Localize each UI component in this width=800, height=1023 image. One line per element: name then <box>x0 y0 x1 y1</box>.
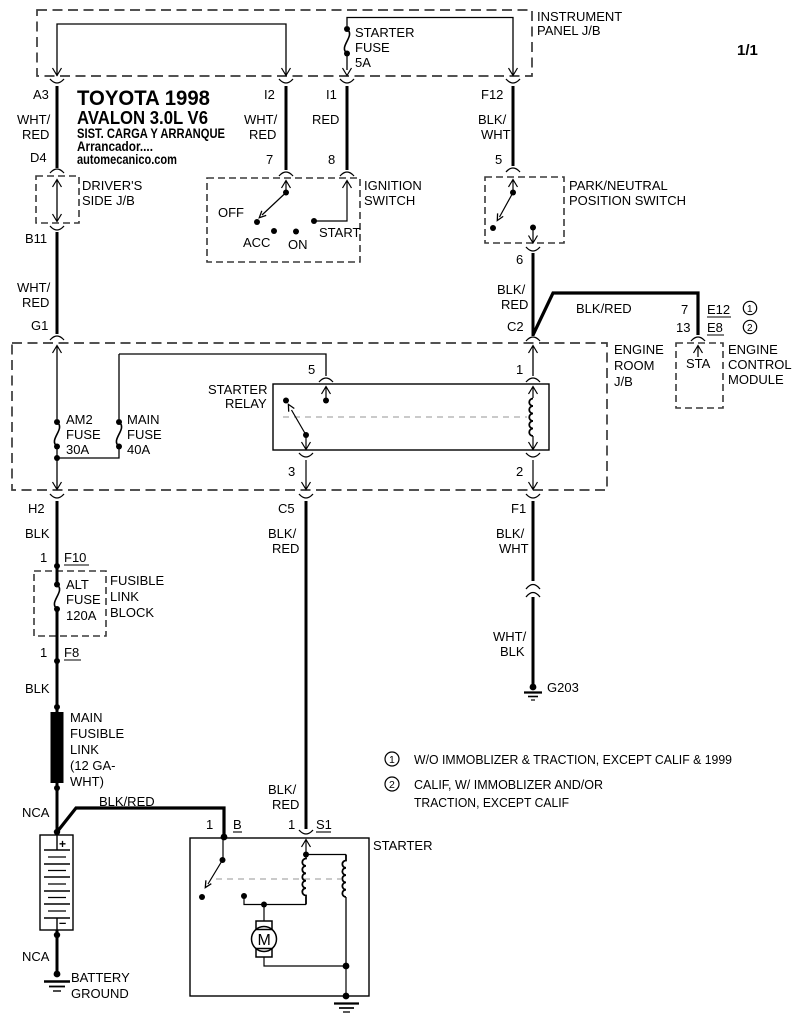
starter S1 entry arrow <box>302 840 311 858</box>
svg-text:2: 2 <box>516 464 523 479</box>
starter relay box <box>273 384 549 450</box>
svg-text:WHT: WHT <box>481 127 511 142</box>
wire junction to H2 <box>53 446 62 490</box>
svg-text:2: 2 <box>389 779 395 791</box>
wire fuse-F12 inside instrument panel <box>347 18 518 77</box>
connector relay pin3 socket <box>288 453 313 479</box>
label main fusible link <box>70 710 125 789</box>
label BLK/RED branch <box>576 301 632 316</box>
label fusible link block <box>110 573 165 620</box>
svg-text:M: M <box>258 932 271 949</box>
pin 7 label <box>266 152 273 167</box>
starter motor branch wire <box>263 905 265 922</box>
label RED col3 <box>312 112 339 127</box>
svg-text:ON: ON <box>288 237 308 252</box>
wire relay pin2 to F1 <box>529 460 538 490</box>
svg-text:H2: H2 <box>28 501 45 516</box>
svg-text:WHT/: WHT/ <box>244 112 278 127</box>
label starter fuse 5A <box>355 25 414 70</box>
svg-text:2: 2 <box>747 323 753 334</box>
wire F1 to inline connector BLK/WHT <box>532 501 535 581</box>
wire to G203 WHT/BLK <box>532 597 535 684</box>
svg-text:RED: RED <box>312 112 339 127</box>
label BLK/RED col C5 upper <box>268 526 299 556</box>
label 1 S1 <box>288 817 332 832</box>
svg-text:WHT: WHT <box>499 541 529 556</box>
label BLK/RED col C2 <box>497 282 528 312</box>
wire I1 to pin8 RED <box>346 86 349 170</box>
P/N pin5 arrow and pivot <box>509 180 518 196</box>
svg-text:START: START <box>319 225 360 240</box>
note 2 <box>385 777 603 810</box>
label BLK col1b <box>25 681 50 696</box>
battery ground symbol <box>44 971 70 991</box>
engine control module box <box>676 343 723 408</box>
starter solenoid bottom wire <box>241 893 306 905</box>
wire I2 to pin7 WHT/RED <box>285 86 288 170</box>
label instrument panel J/B <box>537 9 622 38</box>
label BLK/WHT col F1 <box>496 526 529 556</box>
junction dot battery minus <box>54 932 60 938</box>
svg-text:STARTER: STARTER <box>208 382 267 397</box>
svg-text:W/O IMMOBLIZER & TRACTION, EXC: W/O IMMOBLIZER & TRACTION, EXCEPT CALIF … <box>414 752 732 767</box>
svg-text:RELAY: RELAY <box>225 396 267 411</box>
instrument panel J/B box <box>37 10 532 76</box>
svg-text:TOYOTA 1998: TOYOTA 1998 <box>77 87 210 110</box>
wire H2 to F10 BLK <box>56 501 59 565</box>
svg-text:RED: RED <box>501 297 528 312</box>
svg-text:B11: B11 <box>25 231 47 246</box>
label BLK/RED col C5 lower <box>268 782 299 812</box>
starter field coil <box>342 855 346 967</box>
svg-text:CONTROL: CONTROL <box>728 357 792 372</box>
svg-text:I2: I2 <box>264 87 275 102</box>
relay common to pin3 <box>302 435 311 450</box>
svg-text:SWITCH: SWITCH <box>364 193 415 208</box>
svg-text:PANEL J/B: PANEL J/B <box>537 23 601 38</box>
svg-text:G203: G203 <box>547 680 579 695</box>
junction dot AM2/MAIN <box>54 455 60 461</box>
P/N output contact and arrow <box>529 225 538 244</box>
label AM2 fuse 30A <box>66 412 101 457</box>
svg-text:IGNITION: IGNITION <box>364 178 422 193</box>
svg-text:BLOCK: BLOCK <box>110 605 154 620</box>
label engine control module <box>728 342 792 387</box>
label 1 F10 <box>40 550 89 565</box>
label pin 1 relay <box>516 362 523 377</box>
svg-text:1/1: 1/1 <box>737 42 758 59</box>
pin 5 label <box>495 152 502 167</box>
svg-text:AM2: AM2 <box>66 412 93 427</box>
svg-text:S1: S1 <box>316 817 332 832</box>
starter B junction dot <box>221 834 228 841</box>
connector pin5 socket <box>506 168 520 172</box>
engine room J/B box <box>12 343 607 490</box>
MAIN fuse 40A <box>57 419 122 458</box>
wire to starter ground <box>345 966 347 996</box>
starter fuse 5A <box>343 26 352 76</box>
svg-text:D4: D4 <box>30 150 47 165</box>
note ref 1 circle <box>743 301 756 315</box>
svg-text:ALT: ALT <box>66 577 89 592</box>
label engine room J/B <box>614 342 664 389</box>
AM2 fuse 30A <box>54 419 60 450</box>
label G1 <box>31 318 48 333</box>
fusible link block box <box>34 571 106 636</box>
connector H2 socket <box>28 494 64 516</box>
label pin 13 E8 <box>676 320 724 335</box>
svg-text:F12: F12 <box>481 87 503 102</box>
svg-text:BATTERY: BATTERY <box>71 970 130 985</box>
label starter relay <box>208 382 267 411</box>
starter B switch pivot <box>220 837 226 863</box>
svg-text:A3: A3 <box>33 87 49 102</box>
MAIN fuse branch wire <box>118 354 120 419</box>
svg-text:RED: RED <box>272 797 299 812</box>
svg-text:5: 5 <box>495 152 502 167</box>
svg-text:F8: F8 <box>64 645 79 660</box>
svg-text:7: 7 <box>266 152 273 167</box>
connector pin7 socket <box>279 172 293 176</box>
connector F12 <box>481 79 520 102</box>
connector C5 socket <box>278 494 313 516</box>
ignition switch box <box>207 178 360 262</box>
svg-text:1: 1 <box>516 362 523 377</box>
label pin 5 relay <box>308 362 315 377</box>
svg-text:AVALON 3.0L V6: AVALON 3.0L V6 <box>77 108 208 128</box>
label BLK col1 <box>25 526 50 541</box>
svg-text:1: 1 <box>40 645 47 660</box>
svg-text:7: 7 <box>681 302 688 317</box>
connector E12/E8 socket <box>691 337 705 341</box>
ignition START wire to pin8 <box>314 181 352 222</box>
ECM STA pin arrow <box>694 346 703 358</box>
label 1 B <box>206 817 242 832</box>
ignition ACC contact <box>243 228 277 250</box>
relay pin5 contact arrow <box>322 387 331 404</box>
wire F8 to main fusible link BLK <box>56 661 59 712</box>
svg-text:120A: 120A <box>66 608 97 623</box>
svg-text:C2: C2 <box>507 319 524 334</box>
P/N lever <box>497 193 513 221</box>
park/neutral position switch box <box>485 177 564 243</box>
relay lever <box>288 404 309 438</box>
label driver's side J/B <box>82 178 143 208</box>
svg-text:FUSIBLE: FUSIBLE <box>70 726 125 741</box>
inline connector F1 wire <box>526 585 540 598</box>
svg-text:OFF: OFF <box>218 205 244 220</box>
svg-text:BLK: BLK <box>500 644 525 659</box>
svg-text:3: 3 <box>288 464 295 479</box>
svg-text:WHT/: WHT/ <box>17 112 51 127</box>
wire through driver's J/B <box>53 180 62 222</box>
connector D4 socket <box>50 169 64 173</box>
label starter <box>373 838 432 853</box>
svg-text:ENGINE: ENGINE <box>728 342 778 357</box>
svg-text:E12: E12 <box>707 302 730 317</box>
ignition OFF contact <box>218 205 260 225</box>
svg-text:G1: G1 <box>31 318 48 333</box>
svg-text:CALIF, W/ IMMOBLIZER AND/OR: CALIF, W/ IMMOBLIZER AND/OR <box>414 777 603 792</box>
wire BLK/RED battery to starter B <box>57 808 224 836</box>
wire G1 into engine box <box>53 346 62 420</box>
svg-text:5A: 5A <box>355 55 371 70</box>
motor M <box>252 921 277 957</box>
connector pin6 socket <box>516 247 540 267</box>
svg-text:BLK/RED: BLK/RED <box>576 301 632 316</box>
page number 1/1 <box>737 42 758 59</box>
svg-text:ENGINE: ENGINE <box>614 342 664 357</box>
svg-text:RED: RED <box>22 295 49 310</box>
ALT fuse 120A <box>54 566 60 660</box>
label WHT/RED col1b <box>17 280 51 310</box>
svg-text:FUSIBLE: FUSIBLE <box>110 573 165 588</box>
connector C2 socket <box>526 337 540 341</box>
label BLK/RED bottom <box>99 794 155 809</box>
svg-text:I1: I1 <box>326 87 337 102</box>
wire link to battery NCA <box>56 783 59 835</box>
junction dot battery plus <box>54 829 60 835</box>
svg-text:WHT): WHT) <box>70 774 104 789</box>
label MAIN fuse 40A <box>127 412 162 457</box>
svg-text:NCA: NCA <box>22 805 50 820</box>
ignition pin7 arrow and pivot <box>282 181 291 196</box>
svg-text:FUSE: FUSE <box>66 592 101 607</box>
svg-text:STARTER: STARTER <box>355 25 414 40</box>
svg-text:RED: RED <box>22 127 49 142</box>
svg-text:1: 1 <box>747 304 753 315</box>
label C2 <box>507 319 524 334</box>
svg-text:ACC: ACC <box>243 235 270 250</box>
ignition START contact <box>311 218 360 240</box>
ignition lever to OFF <box>259 193 286 218</box>
svg-text:(12 GA-: (12 GA- <box>70 758 116 773</box>
svg-text:BLK/: BLK/ <box>268 526 297 541</box>
svg-text:30A: 30A <box>66 442 89 457</box>
wire C5 to S1 BLK/RED <box>305 501 308 829</box>
label NCA top <box>22 805 50 820</box>
svg-text:1: 1 <box>288 817 295 832</box>
svg-text:1: 1 <box>206 817 213 832</box>
svg-text:F10: F10 <box>64 550 86 565</box>
svg-text:GROUND: GROUND <box>71 986 129 1001</box>
wire MAIN fuse to relay pin5 <box>119 354 326 376</box>
svg-text:RED: RED <box>272 541 299 556</box>
svg-text:WHT/: WHT/ <box>17 280 51 295</box>
svg-text:–: – <box>59 915 66 930</box>
starter ground junction dot <box>343 963 350 970</box>
title block <box>77 87 225 167</box>
svg-text:MODULE: MODULE <box>728 372 784 387</box>
svg-text:40A: 40A <box>127 442 150 457</box>
connector I1 <box>326 79 354 102</box>
connector relay pin1 socket <box>526 378 540 382</box>
starter box <box>190 838 369 996</box>
wire C2 to relay pin1 <box>529 346 538 377</box>
wire relay pin3 to C5 <box>302 460 311 490</box>
svg-text:C5: C5 <box>278 501 295 516</box>
relay internal dashed link <box>283 416 527 418</box>
wire branch to ECM BLK/RED <box>533 293 698 335</box>
svg-text:TRACTION, EXCEPT CALIF: TRACTION, EXCEPT CALIF <box>414 795 569 810</box>
svg-text:automecanico.com: automecanico.com <box>77 152 177 167</box>
wire F12 to pin5 BLK/WHT <box>512 86 515 166</box>
svg-text:DRIVER'S: DRIVER'S <box>82 178 143 193</box>
connector F1 socket <box>511 494 540 516</box>
label ignition switch <box>364 178 422 208</box>
connector S1 socket <box>299 830 313 834</box>
svg-text:POSITION SWITCH: POSITION SWITCH <box>569 193 686 208</box>
pin 8 label <box>328 152 335 167</box>
svg-text:LINK: LINK <box>110 589 139 604</box>
starter B switch contact <box>199 894 205 900</box>
connector I2 <box>264 79 293 102</box>
svg-text:BLK/: BLK/ <box>497 282 526 297</box>
svg-text:B: B <box>233 817 242 832</box>
svg-text:FUSE: FUSE <box>355 40 390 55</box>
svg-text:8: 8 <box>328 152 335 167</box>
svg-text:PARK/NEUTRAL: PARK/NEUTRAL <box>569 178 668 193</box>
label NCA bottom <box>22 949 50 964</box>
svg-text:MAIN: MAIN <box>127 412 160 427</box>
starter motor junction dot <box>261 902 267 908</box>
svg-text:WHT/: WHT/ <box>493 629 527 644</box>
note 1 <box>385 752 732 767</box>
wire battery to ground NCA <box>56 930 59 972</box>
svg-text:RED: RED <box>249 127 276 142</box>
label D4 <box>30 150 47 165</box>
svg-text:BLK/: BLK/ <box>496 526 525 541</box>
svg-text:13: 13 <box>676 320 690 335</box>
connector pin8 socket <box>340 172 354 176</box>
junction dot F10 <box>54 563 60 569</box>
starter internal dashed link <box>216 878 341 880</box>
battery <box>40 835 73 930</box>
connector relay pin5 socket <box>319 378 333 382</box>
starter field coil top wire <box>306 854 346 856</box>
starter solenoid coil <box>302 858 306 905</box>
driver's side J/B box <box>36 176 79 223</box>
starter B switch lever <box>205 860 222 888</box>
label pin 7 E12 <box>681 302 731 317</box>
svg-text:BLK/RED: BLK/RED <box>99 794 155 809</box>
svg-text:ROOM: ROOM <box>614 358 654 373</box>
svg-text:+: + <box>59 837 66 851</box>
note ref 2 circle <box>743 320 756 334</box>
svg-text:6: 6 <box>516 252 523 267</box>
svg-text:1: 1 <box>389 754 395 766</box>
ignition ON contact <box>288 229 308 253</box>
connector G1 socket <box>50 336 64 340</box>
svg-text:E8: E8 <box>707 320 723 335</box>
label WHT/BLK <box>493 629 527 659</box>
svg-text:BLK/: BLK/ <box>268 782 297 797</box>
svg-text:INSTRUMENT: INSTRUMENT <box>537 9 622 24</box>
svg-text:BLK: BLK <box>25 681 50 696</box>
relay coil <box>529 387 538 450</box>
wire A3 to D4 WHT/RED <box>56 86 59 168</box>
relay fixed contact <box>283 398 289 404</box>
svg-text:FUSE: FUSE <box>127 427 162 442</box>
starter ground symbol <box>334 993 359 1012</box>
ground G203 <box>524 680 579 700</box>
motor bottom wire <box>264 957 346 966</box>
svg-text:SIDE J/B: SIDE J/B <box>82 193 135 208</box>
label STA <box>686 356 711 371</box>
junction dot F8 <box>54 658 60 664</box>
main fusible link bar <box>51 704 64 791</box>
wire A3-I2 inside instrument panel <box>53 24 291 76</box>
svg-text:STA: STA <box>686 356 711 371</box>
connector A3 <box>33 79 64 102</box>
svg-text:STARTER: STARTER <box>373 838 432 853</box>
svg-text:MAIN: MAIN <box>70 710 103 725</box>
wire pin6 to C2 BLK/RED <box>532 253 535 336</box>
svg-text:BLK/: BLK/ <box>478 112 507 127</box>
label park/neutral position switch <box>569 178 686 208</box>
connector relay pin2 socket <box>516 453 540 479</box>
wire B11 to G1 WHT/RED <box>56 232 59 334</box>
svg-text:1: 1 <box>40 550 47 565</box>
svg-text:BLK: BLK <box>25 526 50 541</box>
svg-text:FUSE: FUSE <box>66 427 101 442</box>
svg-text:J/B: J/B <box>614 374 633 389</box>
svg-text:5: 5 <box>308 362 315 377</box>
label 1 F8 <box>40 645 81 660</box>
connector B11 socket <box>25 226 64 246</box>
svg-text:F1: F1 <box>511 501 526 516</box>
svg-text:NCA: NCA <box>22 949 50 964</box>
label battery ground <box>71 970 130 1001</box>
svg-text:LINK: LINK <box>70 742 99 757</box>
label BLK/WHT col4 <box>478 112 511 142</box>
label WHT/RED col1 <box>17 112 51 142</box>
label ALT fuse 120A <box>66 577 101 623</box>
label WHT/RED col2 <box>244 112 278 142</box>
P/N left contact <box>490 225 496 231</box>
